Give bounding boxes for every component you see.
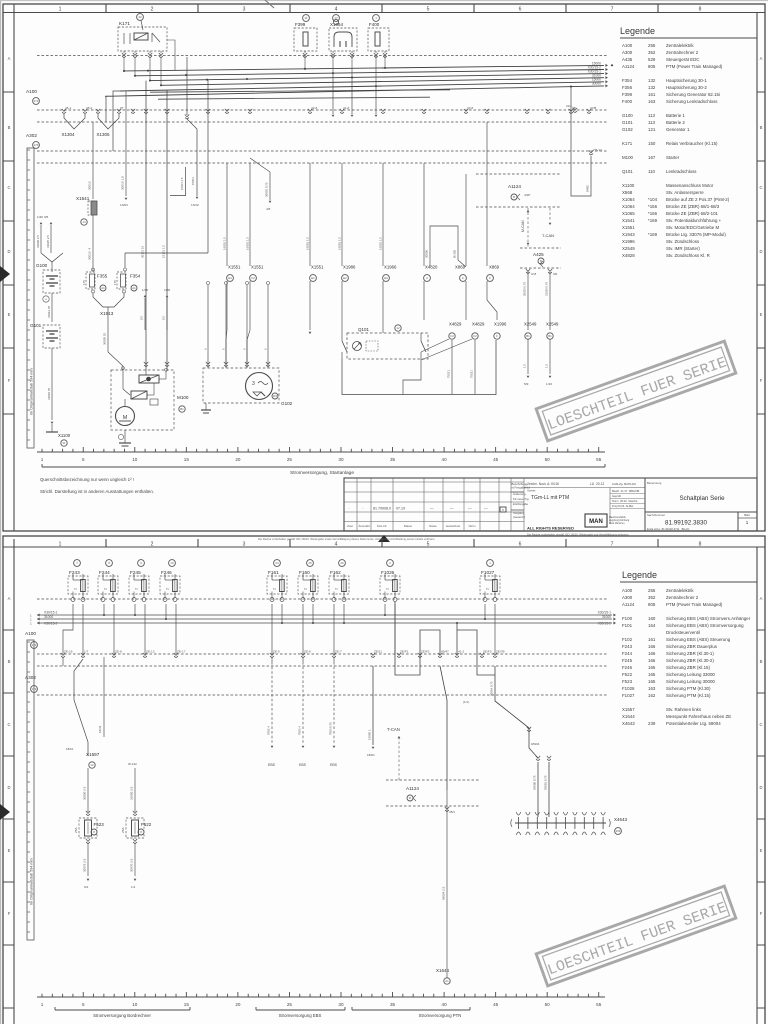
svg-text:F522: F522 [622, 672, 633, 677]
svg-text:175: 175 [113, 280, 117, 285]
fuse F355 [92, 268, 94, 272]
connector chevron x571 on A100 boundary [569, 109, 573, 113]
wires middle columns down [309, 281, 311, 330]
svg-text:X4829: X4829 [449, 322, 462, 327]
wire 15001 stub [170, 167, 186, 196]
title block frame [344, 478, 757, 531]
connector chevron x85 on A100 boundary [83, 109, 87, 113]
row2 connectors X4829 X1996 [423, 281, 425, 320]
svg-text:30005 25: 30005 25 [103, 333, 107, 345]
svg-text:18/01: 18/01 [66, 747, 74, 751]
svg-text:166: 166 [648, 651, 656, 656]
svg-text:[4/302: [4/302 [453, 250, 457, 258]
svg-text:1: 1 [59, 7, 62, 13]
svg-text:X4643: X4643 [614, 817, 628, 822]
wire and connector X1551 x250 [249, 163, 251, 266]
svg-text:Sicherung ZBR Dauerplus: Sicherung ZBR Dauerplus [666, 644, 718, 649]
svg-text:30075 2.5: 30075 2.5 [83, 858, 87, 872]
svg-text:G100: G100 [622, 113, 633, 118]
connector chevron x133 on A100 boundary [131, 109, 135, 113]
svg-text:15: 15 [184, 457, 190, 462]
svg-text:6: 6 [519, 542, 522, 548]
bus line 6 [105, 86, 604, 96]
svg-text:1: 1 [41, 1002, 44, 1007]
svg-text:35: 35 [390, 1002, 396, 1007]
svg-text:12: 12 [396, 326, 400, 330]
svg-text:M: M [123, 415, 128, 421]
svg-text:Brücke ZE (ZBR) 68/1-68/3: Brücke ZE (ZBR) 68/1-68/3 [666, 204, 720, 209]
svg-text:E2: E2 [343, 276, 347, 280]
svg-text:162: 162 [648, 693, 656, 698]
svg-text:10: 10 [132, 1002, 138, 1007]
svg-text:7/5-13: 7/5-13 [593, 148, 602, 152]
svg-text:Q101: Q101 [622, 169, 633, 174]
wire and connector X1551 x227 [226, 163, 228, 266]
wire short arrow 4/5 [250, 158, 270, 200]
svg-text:C: C [7, 722, 10, 727]
bus line 5 [120, 82, 604, 91]
svg-text:A100: A100 [622, 43, 633, 48]
svg-text:W-132: W-132 [128, 762, 137, 766]
wire 13/12 with jog [186, 57, 188, 115]
arrows up right of fuses [144, 295, 147, 297]
sheet 1 left margin strip [27, 148, 34, 448]
svg-text:31020 2.5: 31020 2.5 [36, 235, 40, 248]
svg-text:(wesentl.): (wesentl.) [513, 515, 525, 519]
connector chevron x399 on A302 boundary [397, 653, 401, 657]
svg-text:EBS: EBS [268, 763, 276, 767]
svg-text:30006: 30006 [425, 250, 429, 258]
M-CAN dashed link [527, 208, 529, 247]
relay right feed bend [167, 40, 175, 70]
svg-text:F400: F400 [369, 22, 380, 27]
X4643 feed wires [537, 762, 539, 817]
svg-text:*156: *156 [648, 211, 658, 216]
svg-text:42-8: 42-8 [311, 106, 317, 110]
svg-text:31013 70: 31013 70 [47, 306, 51, 318]
T-CAN label sheet1 [549, 208, 551, 221]
svg-text:E4: E4 [228, 276, 232, 280]
svg-text:160: 160 [648, 616, 656, 621]
sheet 1 binding triangle [0, 266, 10, 282]
svg-text:15001 1.5: 15001 1.5 [180, 177, 184, 190]
svg-text:Stromversorgung PTN: Stromversorgung PTN [419, 1013, 462, 1018]
svg-text:55: 55 [596, 1002, 602, 1007]
svg-text:2: 2 [74, 588, 78, 590]
module A302 boundary dashed [37, 150, 608, 152]
svg-text:2: 2 [151, 542, 154, 548]
wire fuse drop x485 [484, 604, 486, 619]
svg-text:165: 165 [648, 672, 656, 677]
svg-text:G100: G100 [36, 263, 48, 268]
wire fuse drop x385 [384, 604, 386, 615]
svg-text:163: 163 [648, 99, 656, 104]
svg-text:3: 3 [243, 542, 246, 548]
svg-text:25: 25 [308, 561, 312, 565]
svg-text:A: A [8, 56, 11, 61]
fuse F243 [68, 576, 88, 594]
sheet 2 binding triangle [0, 804, 10, 820]
wire fuse drop x176 [175, 604, 177, 654]
svg-text:59001 0.75: 59001 0.75 [544, 775, 548, 790]
svg-text:Die Rechte vorbehalten gemäß I: Die Rechte vorbehalten gemäß ISO 16016. … [258, 537, 435, 541]
sheet 1 fold mark [265, 0, 274, 8]
svg-text:Generator 1: Generator 1 [666, 127, 690, 132]
svg-text:T-CAN: T-CAN [387, 727, 400, 732]
svg-text:0.5: 0.5 [140, 316, 144, 320]
svg-text:Proj 03.03 ALMei: Proj 03.03 ALMei [612, 504, 634, 508]
svg-text:Stromversorgung EBS: Stromversorgung EBS [279, 1013, 322, 1018]
wire and connector X1986 x342 [341, 163, 343, 266]
svg-text:*169: *169 [648, 232, 658, 237]
connector chevron x64 on A100 boundary [62, 109, 66, 113]
svg-text:Legende: Legende [620, 26, 655, 36]
svg-text:E: E [8, 848, 11, 853]
wire into G102 x268 [267, 285, 269, 368]
svg-text:165: 165 [648, 679, 656, 684]
svg-text:F354: F354 [130, 274, 141, 279]
svg-text:F246: F246 [161, 570, 172, 575]
svg-text:7: 7 [611, 7, 614, 13]
svg-text:42: 42 [138, 15, 142, 19]
svg-text:A1124: A1124 [622, 602, 635, 607]
connector chevron x227 on A100 boundary [225, 109, 229, 113]
wire into G102 x247 [246, 285, 248, 368]
fuse F1026 [380, 576, 400, 594]
svg-text:X1966: X1966 [384, 265, 397, 270]
sheet 1 outer frame [3, 4, 765, 531]
svg-text:X30/15-2: X30/15-2 [598, 622, 612, 626]
connector funnel X1304 [64, 114, 85, 129]
svg-text:F245: F245 [130, 570, 141, 575]
svg-text:B: B [760, 125, 763, 130]
svg-text:X1644: X1644 [436, 968, 450, 973]
svg-text:Relais Verbraucher (Kl.15): Relais Verbraucher (Kl.15) [666, 141, 718, 146]
svg-text:ZE-8: ZE-8 [115, 650, 122, 654]
sheet 2 side bands [13, 547, 15, 1024]
svg-text:—: — [468, 507, 472, 511]
svg-text:14: 14 [82, 220, 86, 224]
wire fuse drop x272 [271, 604, 273, 654]
svg-text:81.99192.3830: 81.99192.3830 [665, 520, 708, 527]
svg-text:ZE-7: ZE-7 [335, 650, 342, 654]
fuse F246 [160, 576, 180, 594]
svg-text:40: 40 [442, 1002, 448, 1007]
svg-text:PTM (Power Train Managed): PTM (Power Train Managed) [666, 64, 723, 69]
svg-text:Hauptsicherung 30-2: Hauptsicherung 30-2 [666, 85, 707, 90]
svg-text:31000: 31000 [44, 615, 53, 619]
connector chevron x145 on A302 boundary [143, 653, 147, 657]
svg-text:2: 2 [486, 588, 490, 590]
svg-text:PTM (Power Train Managed): PTM (Power Train Managed) [666, 602, 723, 607]
svg-text:Norm: Norm [469, 524, 477, 528]
svg-text:F: F [462, 276, 464, 280]
svg-text:166: 166 [648, 658, 656, 663]
svg-text:Sicherung ZBR (Kl.30-1): Sicherung ZBR (Kl.30-1) [666, 651, 714, 656]
svg-text:Steuergerät EDC: Steuergerät EDC [666, 57, 699, 62]
svg-text:121: 121 [648, 127, 656, 132]
svg-text:4: 4 [335, 7, 338, 13]
svg-text:+: + [45, 298, 47, 302]
svg-text:165: 165 [648, 665, 656, 670]
relay K171 coil [134, 33, 148, 40]
svg-text:Legende: Legende [622, 570, 657, 580]
svg-text:A: A [760, 56, 763, 61]
starter contact [122, 371, 124, 389]
svg-text:30070 2.5: 30070 2.5 [130, 858, 134, 872]
svg-text:Sicherung PTM (Kl.15): Sicherung PTM (Kl.15) [666, 693, 711, 698]
svg-text:F355: F355 [97, 274, 108, 279]
svg-text:F399: F399 [622, 92, 633, 97]
svg-text:Stv. Zündschloss: Stv. Zündschloss [666, 239, 700, 244]
svg-text:F2: F2 [473, 334, 477, 338]
svg-text:5: 5 [82, 457, 85, 462]
circled ref 26 [339, 560, 346, 567]
fuse F162 [329, 576, 349, 594]
svg-text:G102: G102 [281, 401, 293, 406]
generator G102 symbol [246, 373, 273, 400]
wires below X4829 to loop [451, 340, 453, 394]
svg-text:Norm 20.02 Gleiche: Norm 20.02 Gleiche [612, 499, 638, 503]
svg-text:KF neue Trg.: KF neue Trg. [513, 497, 529, 501]
wire continuation under pins [226, 281, 228, 330]
svg-text:30: 30 [338, 1002, 344, 1007]
svg-text:1/58: 1/58 [164, 288, 170, 292]
svg-text:172: 172 [32, 643, 37, 647]
svg-text:10: 10 [132, 457, 138, 462]
svg-text:Gezeichnet: Gezeichnet [446, 524, 460, 528]
wire drop x373 [372, 666, 374, 745]
wire to X1644 [446, 790, 448, 968]
svg-text:Stv. Zündschloss Kl. R: Stv. Zündschloss Kl. R [666, 253, 710, 258]
connector chevron x334 on A302 boundary [332, 653, 336, 657]
connector chevron x487 on A100 boundary [485, 109, 489, 113]
svg-text:15001: 15001 [191, 177, 195, 185]
ground X1100 [51, 422, 54, 424]
circled ref 9 [138, 560, 145, 567]
svg-text:X30/15-1: X30/15-1 [598, 611, 612, 615]
svg-text:25A: 25A [74, 827, 78, 833]
svg-text:2: 2 [151, 7, 154, 13]
svg-text:E: E [760, 312, 763, 317]
wire 5482 U-link [571, 87, 591, 196]
svg-text:A1124: A1124 [406, 786, 419, 791]
svg-text:F: F [489, 276, 491, 280]
svg-text:Stv. Anlassersperre: Stv. Anlassersperre [666, 190, 704, 195]
svg-text:CAD-Zg. RUPLAN: CAD-Zg. RUPLAN [612, 482, 636, 486]
svg-text:X1551: X1551 [228, 265, 241, 270]
svg-text:X1557: X1557 [622, 707, 635, 712]
svg-text:Benennung: Benennung [647, 481, 662, 485]
svg-text:8: 8 [699, 542, 702, 548]
svg-text:Q101: Q101 [358, 327, 370, 332]
svg-text:352: 352 [648, 50, 656, 55]
svg-text:Stv. Potentialdurchführung +: Stv. Potentialdurchführung + [666, 218, 722, 223]
svg-text:16001 1.5: 16001 1.5 [306, 237, 310, 250]
svg-text:A100: A100 [622, 588, 633, 593]
wire fuse drop x495 [494, 604, 496, 654]
svg-text:X1100: X1100 [58, 433, 71, 438]
wire into G102 x208 [207, 285, 209, 368]
svg-text:2: 2 [335, 588, 339, 590]
wire drop right branch to X1644 [440, 666, 447, 790]
svg-text:Messpunkt Fahrerhaus neben ZE: Messpunkt Fahrerhaus neben ZE [666, 714, 731, 719]
fuse F245 [129, 576, 149, 594]
svg-text:E: E [760, 848, 763, 853]
sheet 2 section brackets [55, 1009, 190, 1011]
svg-text:75021: 75021 [470, 370, 474, 378]
svg-text:X4828: X4828 [622, 253, 635, 258]
bus left end drop 1 [113, 91, 121, 151]
svg-text:Massenanschluss Motor: Massenanschluss Motor [666, 183, 714, 188]
bus line extra 7 [150, 90, 450, 92]
svg-text:1.5: 1.5 [523, 364, 527, 368]
svg-text:7083 0.75: 7083 0.75 [329, 722, 333, 735]
svg-text:F: F [496, 334, 498, 338]
connector chevron x495 on A302 boundary [493, 653, 497, 657]
svg-text:X4643: X4643 [622, 721, 635, 726]
svg-text:Hauptsicherung 30-1: Hauptsicherung 30-1 [666, 78, 707, 83]
starter ground [124, 430, 126, 437]
circled ref 24 [274, 560, 281, 567]
svg-text:M-CAN: M-CAN [521, 220, 525, 232]
svg-text:35: 35 [390, 457, 396, 462]
svg-text:ZE/F1: ZE/F1 [400, 650, 409, 654]
svg-text:25: 25 [287, 457, 293, 462]
svg-text:A1124: A1124 [622, 64, 635, 69]
svg-text:Querschnittsbezeichnung nur we: Querschnittsbezeichnung nur wenn ungleic… [40, 477, 134, 482]
wire fuse drop x334 [333, 604, 335, 654]
svg-text:805: 805 [648, 602, 656, 607]
svg-text:Erstfreigabe: Erstfreigabe [513, 502, 529, 506]
svg-text:Änd-zahl: Änd-zahl [358, 524, 369, 528]
svg-text:31: 31 [62, 441, 66, 445]
svg-text:17: 17 [334, 16, 338, 20]
fuse pins row [303, 53, 307, 57]
svg-text:X568: X568 [622, 190, 633, 195]
svg-text:Bearb 21.37 MBA/OB: Bearb 21.37 MBA/OB [612, 489, 640, 493]
svg-text:Ersta Lfd-o. 81.99192.3711 B: Ersta Lfd-o. 81.99192.3711 Blo-Nr. [647, 527, 690, 531]
title block CAD column [609, 488, 611, 525]
svg-text:T-CAN: T-CAN [542, 233, 554, 238]
svg-text:113: 113 [648, 113, 656, 118]
svg-text:G102: G102 [622, 127, 633, 132]
svg-text:30010 1.5: 30010 1.5 [121, 176, 125, 190]
wire 13/03 drop [125, 91, 127, 196]
svg-text:ZE/7B: ZE/7B [496, 650, 505, 654]
connector chevron x527 on A100 boundary [525, 109, 529, 113]
svg-text:Zeichn. Nuct. A. K016: Zeichn. Nuct. A. K016 [527, 482, 559, 486]
bracket wire to F1027 branch [456, 623, 458, 654]
svg-text:30000: 30000 [592, 82, 601, 86]
connector chevron x119 on A100 boundary [117, 109, 121, 113]
bus arrows right sheet2 [613, 613, 616, 616]
circled ref 10 [169, 560, 176, 567]
svg-text:X4829: X4829 [472, 322, 485, 327]
bus risers from relay and fuses [123, 58, 125, 71]
circled ref 2 [387, 560, 394, 567]
svg-text:(1/1): (1/1) [463, 700, 469, 704]
svg-text:*156: *156 [648, 204, 658, 209]
sheet 2 left margin strip [27, 640, 34, 940]
svg-text:239: 239 [616, 829, 621, 833]
svg-text:X4820: X4820 [425, 265, 438, 270]
svg-text:X1644: X1644 [622, 714, 635, 719]
svg-text:33000 2.5: 33000 2.5 [130, 786, 134, 800]
bus junction dots [123, 70, 125, 72]
svg-text:X1065: X1065 [622, 211, 635, 216]
sheet 2 top band [3, 546, 765, 548]
svg-text:F522: F522 [141, 822, 152, 827]
svg-text:F399: F399 [295, 22, 306, 27]
bus arrows left sheet2 [37, 613, 40, 616]
watermark stamp sheet 2 [536, 886, 736, 986]
bus junction dots sheet2 [103, 614, 105, 616]
svg-text:30000 2.5: 30000 2.5 [83, 786, 87, 800]
wire loop from Q101 bottom [342, 340, 496, 395]
svg-text:Sicherung Leitung 33000: Sicherung Leitung 33000 [666, 672, 715, 677]
svg-text:15151 1.5: 15151 1.5 [162, 245, 166, 258]
svg-text:—: — [484, 507, 488, 511]
module A425 [520, 247, 561, 249]
svg-text:6: 6 [519, 7, 522, 13]
relay K171 top pin [137, 14, 144, 21]
svg-text:F: F [760, 911, 763, 916]
sheet 2 outer frame [3, 536, 765, 1024]
svg-text:B: B [409, 796, 411, 800]
fuse refs circled [303, 15, 310, 22]
svg-text:F: F [760, 378, 763, 383]
svg-text:A1: A1 [101, 286, 105, 290]
wire fuse drop x114 [113, 604, 115, 654]
svg-text:ZE-17: ZE-17 [177, 650, 186, 654]
svg-text:F161: F161 [268, 570, 279, 575]
svg-text:5: 5 [82, 1002, 85, 1007]
connector chevron x83 on A302 boundary [81, 653, 85, 657]
wires below A302 sheet2 [62, 657, 64, 666]
svg-text:13/03: 13/03 [120, 203, 128, 207]
module A100 boundary dashed [37, 109, 608, 111]
svg-text:50: 50 [545, 457, 551, 462]
svg-text:Augsburg-Nürnberg: Augsburg-Nürnberg [609, 519, 630, 522]
svg-text:F246: F246 [622, 665, 633, 670]
fuse links X1064 [329, 28, 357, 51]
svg-text:F160: F160 [299, 570, 310, 575]
svg-text:F1026: F1026 [622, 686, 635, 691]
svg-text:16001 1.5: 16001 1.5 [379, 237, 383, 250]
svg-text:F102: F102 [622, 637, 633, 642]
connector chevron x114 on A302 boundary [112, 653, 116, 657]
wire Q101 bottom 2 [403, 359, 421, 395]
wire fuse drop x104 [103, 604, 105, 615]
svg-text:F244: F244 [622, 651, 633, 656]
svg-text:161: 161 [648, 92, 656, 97]
svg-text:16001 1.5: 16001 1.5 [338, 237, 342, 250]
svg-text:C: C [759, 722, 762, 727]
svg-text:4: 4 [335, 542, 338, 548]
svg-text:X30/15-2: X30/15-2 [44, 622, 58, 626]
lock contact 2 [420, 333, 422, 341]
svg-text:X1304: X1304 [61, 132, 75, 137]
svg-text:110: 110 [648, 169, 656, 174]
svg-text:Schaltplan Serie: Schaltplan Serie [679, 495, 725, 502]
svg-text:9/W04: 9/W04 [531, 742, 540, 746]
svg-text:4/15: 4/15 [531, 272, 537, 276]
circled ref 8 [106, 560, 113, 567]
svg-text:B: B [8, 659, 11, 664]
T-CAN link sheet2 [398, 737, 400, 780]
wire and connector X1966 x383 [382, 163, 384, 266]
